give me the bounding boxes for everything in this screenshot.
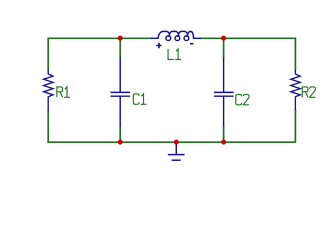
label R1 [57, 87, 70, 97]
wire bottom segment with both corners [48, 140, 295, 143]
inductor L1 [152, 31, 201, 40]
junction node at C2 top [221, 36, 225, 40]
wire C2 top stem [223, 38, 225, 58]
label R2 [302, 87, 315, 97]
wire C2 bottom stem [223, 126, 225, 142]
junction node at C1 top [118, 36, 122, 40]
label C1 [133, 94, 146, 104]
junction node at C1 bottom [118, 140, 122, 144]
capacitor C2 [215, 58, 233, 126]
ground [168, 142, 185, 160]
L1 minus polarity mark [190, 43, 193, 45]
wire top-right segment with right corner [200, 38, 295, 70]
wire right vertical lower [294, 110, 296, 142]
resistor R2 [291, 70, 300, 110]
wire left vertical lower [47, 110, 49, 142]
junction node at ground [174, 140, 178, 144]
wire top-left segment with left corner [48, 38, 151, 70]
L1 plus polarity mark [156, 43, 161, 49]
wire C1 top stem [119, 38, 121, 58]
wire C1 bottom stem [119, 126, 121, 142]
capacitor C1 [111, 58, 129, 126]
resistor R1 [44, 70, 53, 110]
junction node at C2 bottom [221, 140, 225, 144]
label L1 [168, 49, 181, 59]
label C2 [236, 94, 249, 104]
